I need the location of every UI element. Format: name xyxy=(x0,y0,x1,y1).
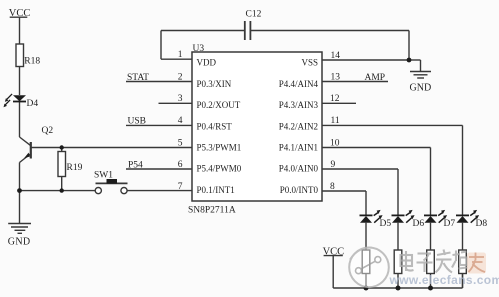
svg-text:D4: D4 xyxy=(27,99,39,109)
svg-text:R18: R18 xyxy=(24,56,40,66)
svg-text:P5.3/PWM1: P5.3/PWM1 xyxy=(197,143,242,153)
svg-text:13: 13 xyxy=(331,72,341,82)
svg-text:14: 14 xyxy=(331,51,341,61)
svg-text:www.elecfans.com: www.elecfans.com xyxy=(389,273,499,287)
svg-text:P0.2/XOUT: P0.2/XOUT xyxy=(197,100,241,110)
svg-text:1: 1 xyxy=(178,50,183,60)
svg-text:R19: R19 xyxy=(67,163,83,173)
svg-text:7: 7 xyxy=(178,182,183,192)
svg-text:P4.1/AIN1: P4.1/AIN1 xyxy=(279,143,318,153)
svg-text:VCC: VCC xyxy=(9,8,31,19)
svg-text:D5: D5 xyxy=(380,219,392,229)
svg-text:D8: D8 xyxy=(476,219,488,229)
svg-text:GND: GND xyxy=(8,237,31,248)
svg-text:P0.3/XIN: P0.3/XIN xyxy=(197,79,232,89)
svg-text:D6: D6 xyxy=(413,219,425,229)
svg-text:P5.4/PWM0: P5.4/PWM0 xyxy=(197,164,242,174)
svg-text:P0.1/INT1: P0.1/INT1 xyxy=(197,185,235,195)
svg-text:STAT: STAT xyxy=(127,73,149,83)
svg-text:3: 3 xyxy=(178,94,183,104)
svg-text:GND: GND xyxy=(410,83,432,94)
svg-text:P0.4/RST: P0.4/RST xyxy=(197,121,233,131)
svg-text:VSS: VSS xyxy=(301,58,318,68)
svg-text:5: 5 xyxy=(178,138,183,148)
svg-text:10: 10 xyxy=(330,138,340,148)
svg-text:8: 8 xyxy=(330,182,335,192)
svg-text:6: 6 xyxy=(178,160,183,170)
svg-text:4: 4 xyxy=(178,116,183,126)
svg-text:2: 2 xyxy=(178,72,183,82)
svg-text:11: 11 xyxy=(331,116,340,126)
svg-text:U3: U3 xyxy=(193,44,205,54)
svg-text:SW1: SW1 xyxy=(94,170,113,180)
svg-text:P4.0/AIN0: P4.0/AIN0 xyxy=(279,164,319,174)
svg-text:D7: D7 xyxy=(444,219,456,229)
svg-text:P54: P54 xyxy=(128,160,143,170)
svg-text:12: 12 xyxy=(330,94,340,104)
svg-text:P4.3/AIN3: P4.3/AIN3 xyxy=(279,100,319,110)
svg-text:P4.2/AIN2: P4.2/AIN2 xyxy=(279,121,318,131)
svg-text:Q2: Q2 xyxy=(42,126,54,136)
svg-text:P4.4/AIN4: P4.4/AIN4 xyxy=(279,79,319,89)
svg-text:P0.0/INT0: P0.0/INT0 xyxy=(280,185,319,195)
svg-text:USB: USB xyxy=(128,117,146,127)
svg-text:VDD: VDD xyxy=(197,58,217,68)
svg-text:C12: C12 xyxy=(246,10,262,20)
svg-text:9: 9 xyxy=(331,160,336,170)
svg-text:AMP: AMP xyxy=(365,73,386,83)
svg-text:SN8P2711A: SN8P2711A xyxy=(188,206,236,216)
svg-text:VCC: VCC xyxy=(323,247,345,258)
